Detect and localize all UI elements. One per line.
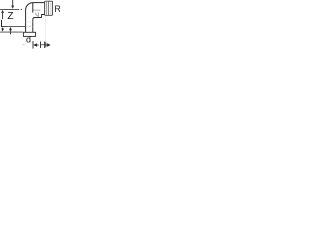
svg-text:H: H: [39, 40, 46, 50]
dimension Z bottom extension line: [5, 26, 25, 28]
dimension d right arrow (points left at extension line): [33, 43, 38, 47]
dimension H extension line (faint, from socket down): [45, 16, 47, 42]
svg-text:Z: Z: [7, 11, 13, 22]
socket inner edge near right: [50, 2, 52, 14]
dimension H extension line (dark part): [45, 42, 47, 47]
inner corner fillet of elbow: [33, 18, 35, 20]
bottom flange / collar: [23, 32, 35, 36]
dimension Z top arrow (points down at centerline): [11, 0, 14, 9]
Z extension faint continuation across pipe: [26, 26, 33, 28]
centerline of horizontal outlet (dash + dot, left extension): [0, 9, 22, 11]
hex edge vertical: [37, 13, 39, 18]
dimension L bottom extension line: [0, 31, 23, 33]
dimension H right arrow (points right): [46, 43, 51, 47]
svg-text:R: R: [54, 4, 60, 14]
socket shading stripe mid: [47, 2, 49, 15]
socket rib 2: [48, 1, 50, 15]
outlet top wall: [33, 2, 45, 4]
socket shading stripe left: [45, 2, 47, 15]
hex chamfer diagonal: [35, 13, 38, 16]
background: [0, 0, 60, 50]
dimension Z bottom arrow (points up at extension line): [9, 27, 12, 34]
dimension L bottom arrow (points down at bottom extension line): [1, 28, 4, 32]
vertical pipe right wall (lower): [32, 19, 34, 32]
svg-text:L: L: [0, 19, 6, 30]
press socket body: [45, 1, 53, 15]
outlet bottom wall (fat body part): [35, 17, 42, 19]
svg-text:d: d: [26, 34, 31, 44]
socket rib 1: [46, 1, 48, 15]
junction edge elbow/outlet (upper right wall): [32, 3, 34, 13]
dimension d right extension line: [32, 41, 34, 49]
dimension L top arrow (points up at centerline): [1, 10, 4, 19]
shoulder step between body and thread: [42, 15, 45, 18]
dimension d left arrow (faint, points right): [23, 43, 26, 45]
pipe insertion depth dashed line: [26, 21, 33, 23]
elbow body: outer corner arc + vertical pipe left wall: [26, 3, 33, 33]
centerline dashes inside outlet: [34, 9, 41, 11]
